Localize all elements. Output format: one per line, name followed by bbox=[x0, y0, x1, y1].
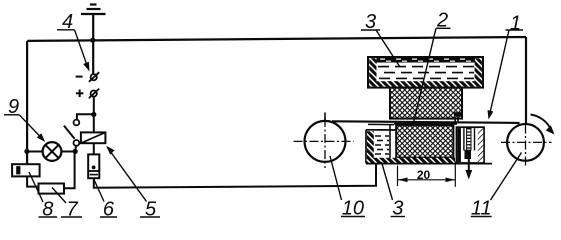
roller 10 bbox=[305, 121, 346, 162]
leader 7 bbox=[52, 188, 66, 204]
wire plug 8 to resistor 7 bbox=[27, 176, 38, 186]
lower tank 3 left edge bbox=[365, 130, 367, 164]
resistor 7 bbox=[39, 184, 65, 194]
pad 2 lower block bbox=[396, 125, 453, 157]
svg-text:1: 1 bbox=[510, 13, 521, 35]
holder stems at tape bbox=[454, 117, 456, 122]
leader 3 bottom bbox=[382, 162, 393, 200]
lower tank 3 left wall bbox=[367, 131, 374, 160]
leader 1 bbox=[490, 30, 524, 115]
wire left vertical bbox=[26, 41, 28, 164]
leader 2 bbox=[413, 28, 451, 125]
ground (inverted earth symbol) bbox=[81, 5, 106, 75]
squeegee holder bbox=[457, 127, 485, 163]
tape lower edge across pad bbox=[394, 123, 457, 125]
switch bottom contact bbox=[74, 140, 80, 146]
roller 11 bbox=[507, 124, 544, 161]
svg-text:9: 9 bbox=[8, 96, 19, 118]
tank 3 liquid bbox=[377, 58, 476, 63]
leader 8 bbox=[29, 172, 43, 202]
leader 9 bbox=[4, 115, 43, 139]
tank 3 left wall bbox=[369, 58, 376, 86]
pad 2 upper block bbox=[390, 88, 462, 119]
switch blade bbox=[64, 126, 75, 139]
minus sign bbox=[76, 76, 83, 78]
leader 10 bbox=[330, 156, 342, 200]
dimension 20 bbox=[398, 162, 456, 187]
squeegee blade bbox=[467, 128, 471, 150]
regulator 5 bbox=[81, 132, 106, 143]
tank 3 right wall bbox=[475, 58, 482, 86]
leader 5 bbox=[108, 148, 147, 202]
resistor 6 bbox=[88, 154, 99, 178]
svg-text:4: 4 bbox=[62, 11, 73, 33]
wire resistor 7 to node B bbox=[64, 151, 75, 188]
svg-text:3: 3 bbox=[365, 11, 376, 33]
clamp terminal minus (4) bbox=[91, 74, 97, 80]
tank 3 bottom wall bbox=[369, 81, 482, 86]
lower tank 3 liquid compartment bbox=[389, 125, 391, 160]
wire 5 to 6 bbox=[93, 143, 95, 154]
node C junction bbox=[91, 112, 96, 117]
leader 11 bbox=[491, 153, 522, 201]
wire top rail bbox=[27, 37, 526, 41]
leader 6 bbox=[94, 179, 105, 202]
tape 1 bbox=[332, 121, 520, 123]
label underlines bbox=[39, 216, 492, 219]
clamp terminal plus (4) bbox=[91, 91, 97, 97]
node B junction bbox=[73, 149, 78, 154]
wire bottom rail bbox=[94, 163, 376, 188]
plug 8 bbox=[12, 164, 39, 176]
wire node A to lamp bbox=[27, 151, 43, 153]
wire plus stem bbox=[93, 97, 95, 133]
lower tank 3 bottom wall bbox=[367, 158, 456, 164]
tank lower back rim bbox=[368, 123, 394, 125]
blade arrow down bbox=[465, 170, 472, 180]
lower tank bottom edge bbox=[366, 163, 492, 165]
svg-text:2: 2 bbox=[436, 10, 448, 32]
switch top contact bbox=[74, 120, 80, 126]
plus sign bbox=[76, 90, 84, 98]
junction top rail / ground stem bbox=[90, 38, 95, 43]
node A junction bbox=[24, 149, 29, 154]
lower tank 3 front rim bbox=[366, 129, 396, 131]
wire lamp to node B bbox=[61, 151, 75, 153]
rotation arrow bbox=[531, 115, 551, 129]
lamp 9 bbox=[43, 142, 62, 161]
svg-text:20: 20 bbox=[417, 168, 431, 182]
wire to switch bbox=[77, 114, 94, 119]
leader 4 bbox=[57, 30, 88, 68]
wire contact to node B bbox=[74, 146, 77, 151]
tank 3 outer bbox=[368, 57, 483, 88]
leader 3 top bbox=[361, 30, 400, 67]
wire right vertical bbox=[525, 37, 527, 124]
